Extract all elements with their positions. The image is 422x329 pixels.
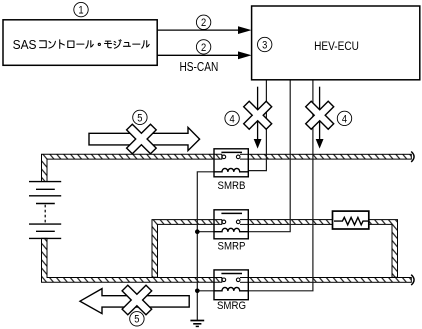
svg-text:4: 4	[230, 114, 235, 126]
svg-text:5: 5	[134, 314, 139, 326]
svg-text:HEV-ECU: HEV-ECU	[314, 40, 359, 53]
svg-text:1: 1	[78, 5, 83, 17]
svg-text:2: 2	[201, 42, 206, 54]
svg-text:SMRB: SMRB	[218, 181, 246, 193]
svg-text:SAS: SAS	[13, 37, 37, 52]
svg-text:2: 2	[201, 18, 206, 30]
svg-text:SMRP: SMRP	[218, 241, 246, 253]
svg-text:5: 5	[137, 113, 142, 125]
svg-text:HS-CAN: HS-CAN	[179, 60, 218, 74]
svg-text:3: 3	[262, 40, 267, 52]
svg-text:SMRG: SMRG	[217, 300, 246, 312]
svg-text:4: 4	[342, 114, 347, 126]
